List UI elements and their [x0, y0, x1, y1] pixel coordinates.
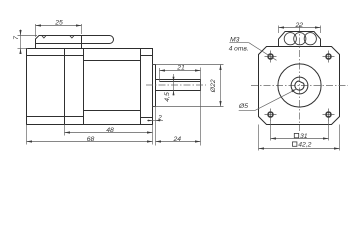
svg-text:22: 22 — [295, 22, 304, 29]
svg-text:25: 25 — [54, 20, 63, 27]
hole top-left — [265, 51, 277, 63]
dim 68 line — [27, 141, 153, 143]
front endcap seam — [140, 49, 142, 125]
wire 2 — [294, 33, 306, 45]
dim O22 line — [220, 65, 222, 107]
dim 21 line — [160, 70, 201, 72]
flange centerline horizontal — [251, 85, 348, 87]
connector block — [36, 36, 82, 49]
svg-text:Ø5: Ø5 — [238, 103, 248, 110]
wire bundle side — [82, 36, 114, 44]
front boss — [153, 65, 156, 107]
hole top-right — [323, 51, 335, 63]
dim 7 line — [20, 30, 22, 54]
dim 68 extension lines — [26, 125, 28, 145]
hole bottom-right — [323, 109, 335, 121]
shaft circle with flat — [295, 81, 304, 90]
dim 22 extension lines — [278, 26, 280, 34]
svg-text:68: 68 — [87, 136, 95, 143]
dim 31 line — [271, 138, 329, 140]
dim 42,2 text — [293, 142, 297, 146]
dim O22 extension lines — [153, 64, 224, 66]
wire 3 — [304, 33, 316, 45]
dim 31 text — [294, 133, 298, 137]
body top inner line rear section — [27, 55, 84, 57]
svg-text:М3: М3 — [230, 36, 240, 43]
dim 31 extension lines — [270, 120, 272, 141]
pilot boss circle — [278, 64, 321, 107]
motor body outline — [27, 49, 153, 125]
body bottom inner line stator section — [84, 110, 141, 112]
wire bundle front — [279, 32, 321, 47]
leader O5 — [239, 89, 296, 110]
dim 7 extension lines — [18, 35, 38, 37]
connector seam — [36, 43, 110, 45]
notch 2 — [70, 36, 74, 39]
dim 24 extension line right — [200, 68, 202, 146]
svg-text:48: 48 — [106, 127, 114, 134]
body seam vertical 1 — [64, 49, 66, 125]
dim 25 extension lines — [35, 24, 37, 37]
note M3 leader — [249, 43, 277, 61]
dim 24 line — [156, 141, 201, 143]
wire 1 — [284, 33, 296, 45]
shaft centerline — [146, 84, 206, 86]
hole bottom-left — [265, 109, 277, 121]
svg-text:4 отв.: 4 отв. — [229, 46, 249, 53]
shaft flat line — [160, 81, 201, 83]
svg-text:7: 7 — [13, 36, 20, 40]
notch 1 — [42, 36, 46, 39]
svg-text:Ø22: Ø22 — [210, 79, 217, 93]
dim 42,2 line — [259, 148, 340, 150]
svg-text:2: 2 — [157, 114, 162, 121]
hub circle — [291, 77, 308, 94]
body bottom inner line front section — [141, 117, 153, 119]
dim 48 extension line — [64, 125, 66, 136]
boss face extension down — [155, 107, 157, 146]
body seam vertical 2 — [83, 49, 85, 125]
body top inner line front section — [141, 55, 153, 57]
dim 2 line — [147, 120, 163, 122]
dim 42,2 extension lines — [258, 125, 260, 151]
body bottom inner line rear section — [27, 116, 84, 118]
shaft — [156, 80, 201, 91]
svg-text:21: 21 — [176, 65, 185, 72]
dim 4,5 line — [173, 74, 175, 96]
svg-text:24: 24 — [173, 136, 182, 143]
flange outline — [259, 47, 340, 125]
dim 21 extension line — [159, 68, 161, 82]
svg-text:31: 31 — [300, 133, 308, 140]
svg-text:4,5: 4,5 — [164, 92, 171, 102]
dim 22 line — [279, 27, 321, 29]
svg-text:42,2: 42,2 — [298, 141, 311, 148]
body top inner line stator section — [84, 60, 141, 62]
dim 48 line — [65, 132, 153, 134]
flange centerline vertical — [299, 25, 301, 131]
dim 25 line — [36, 25, 82, 27]
